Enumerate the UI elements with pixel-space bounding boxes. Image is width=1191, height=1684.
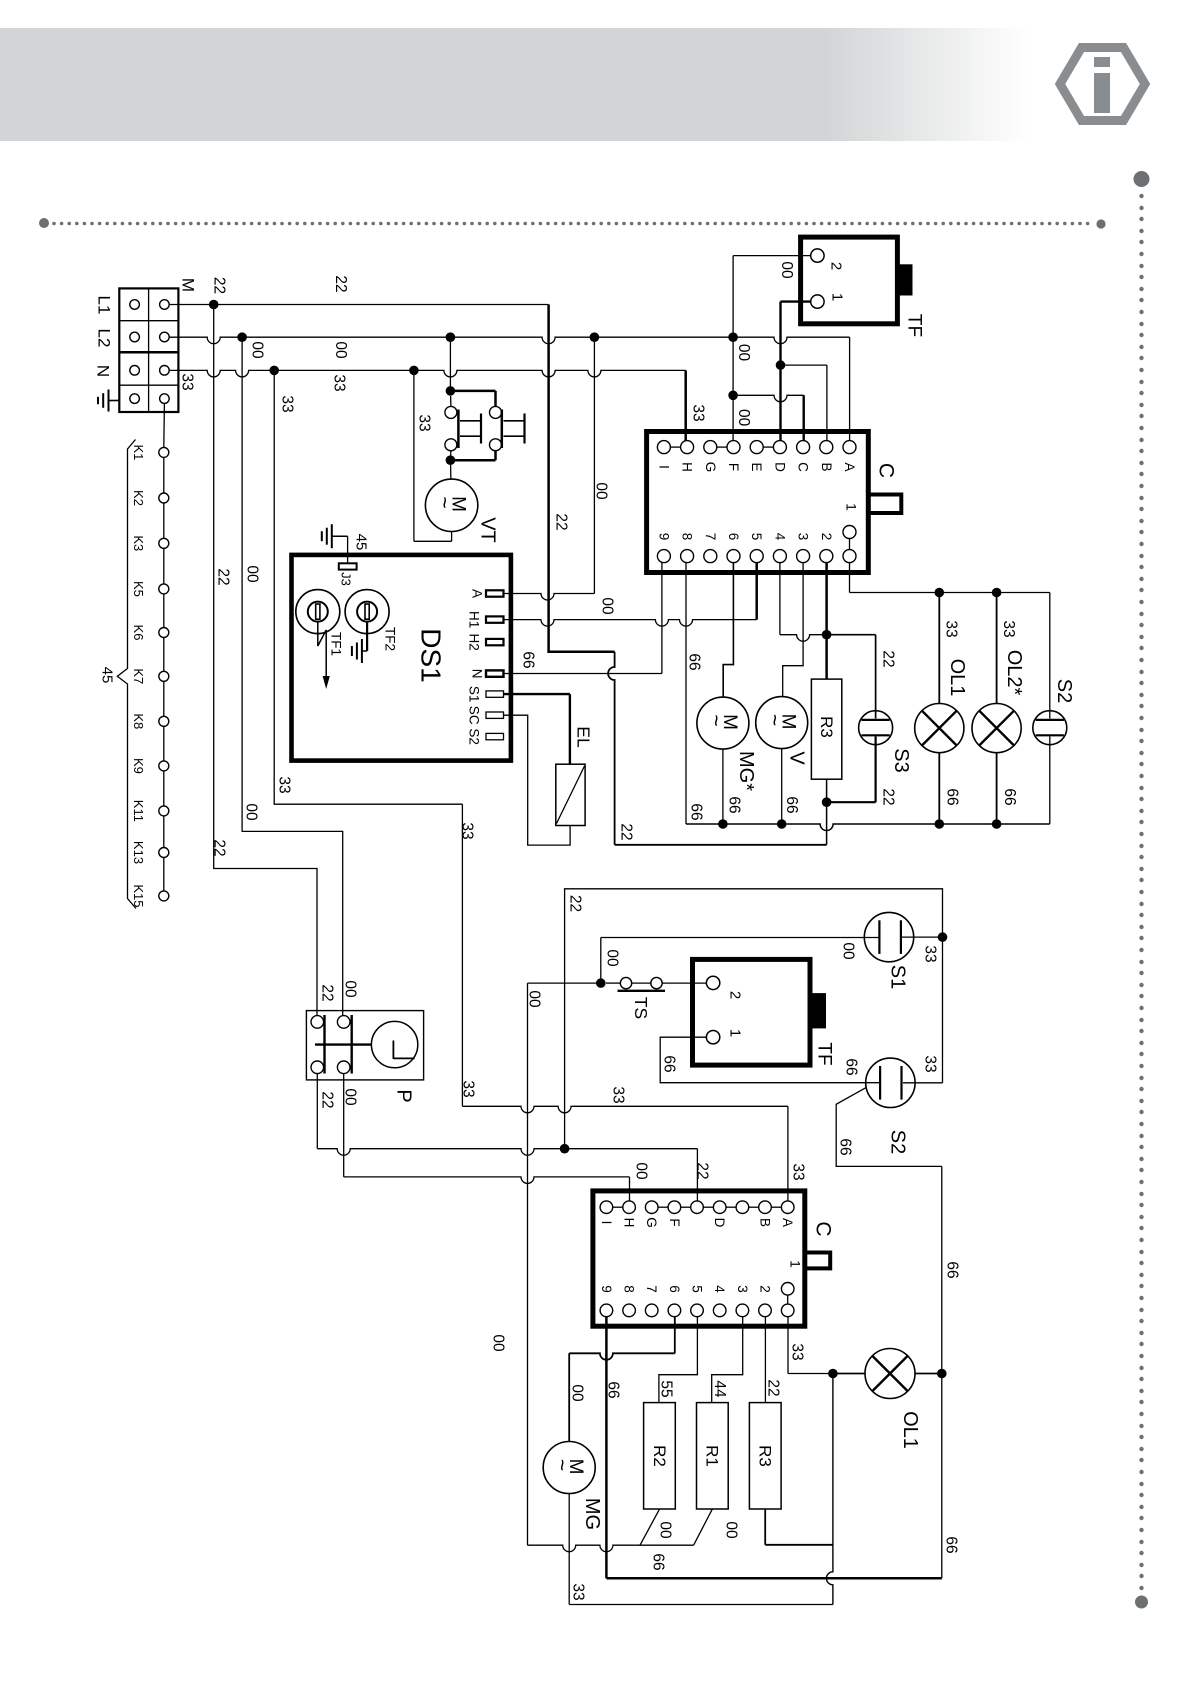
- motor V: [756, 697, 808, 749]
- label C1 pin 7: [703, 533, 718, 541]
- label L2: [95, 329, 114, 348]
- label 33 feeder mid: [279, 395, 296, 412]
- wire 33 feeder down: [461, 804, 463, 1106]
- wire 22 row L1: [169, 304, 548, 306]
- label C2 pin 9: [599, 1285, 614, 1293]
- label 33 y1106: [610, 1086, 627, 1103]
- svg-text:~: ~: [550, 1459, 573, 1471]
- label 22 feeder low: [211, 839, 228, 856]
- label K8: [131, 713, 146, 729]
- label K7: [131, 668, 146, 684]
- wire 33 bottom row: [569, 1604, 833, 1606]
- junction dot TF1/B: [776, 360, 786, 370]
- svg-text:33: 33: [922, 1055, 939, 1072]
- wire S1 to S2: [903, 937, 943, 1083]
- svg-text:00: 00: [243, 803, 260, 821]
- label K11: [131, 800, 146, 822]
- svg-text:S2: S2: [467, 728, 482, 745]
- svg-text:33: 33: [460, 1080, 477, 1097]
- label 22 S3 bottom: [880, 788, 897, 805]
- wire 00 feeder left: [242, 337, 343, 1016]
- wire to C1 pin B: [781, 365, 827, 441]
- label 22 R3b: [765, 1379, 782, 1396]
- lamp OL1 lower: [833, 1349, 942, 1399]
- label 33 pin1: [789, 1343, 806, 1360]
- label 33 a: [179, 373, 196, 390]
- wire 22 feeder left: [214, 305, 317, 1016]
- connector C1 box: [647, 432, 869, 573]
- junction dot TT top: [446, 386, 456, 396]
- svg-text:45: 45: [353, 534, 370, 551]
- info icon hexagon: [1060, 48, 1145, 121]
- label 00 S1 row a: [604, 949, 621, 967]
- svg-text:SC: SC: [467, 706, 482, 725]
- label 66 x942 a: [944, 1261, 961, 1278]
- wire C1-4 to R3 node: [780, 563, 827, 642]
- label 22 feeder mid: [215, 568, 232, 585]
- svg-text:MG: MG: [581, 1498, 603, 1530]
- label C1 pin 8: [680, 533, 695, 541]
- junction dot OL2 top: [992, 588, 1002, 598]
- svg-text:I: I: [656, 465, 671, 469]
- svg-text:K11: K11: [131, 800, 146, 822]
- svg-text:33: 33: [570, 1583, 587, 1600]
- wire DS1 S1 to EL: [504, 694, 570, 764]
- label 00 at C2 H: [633, 1162, 650, 1180]
- label R3: [817, 716, 836, 738]
- label K3: [131, 535, 146, 551]
- svg-text:TF: TF: [814, 1042, 835, 1065]
- wire 00 to C1 pin A: [849, 337, 851, 440]
- label 66 OL2: [1001, 788, 1018, 805]
- label 33 bottom: [570, 1583, 587, 1600]
- svg-text:00: 00: [244, 565, 261, 583]
- svg-text:E: E: [749, 462, 764, 471]
- label N: [94, 365, 113, 377]
- wire DS1 A to 00: [504, 337, 595, 600]
- label 55 R2: [658, 1380, 675, 1397]
- svg-text:C: C: [812, 1221, 835, 1236]
- svg-text:OL1: OL1: [899, 1411, 921, 1449]
- label C1 pin 9: [656, 533, 671, 541]
- svg-text:66: 66: [944, 788, 961, 805]
- wire C1-2 to R3: [825, 563, 828, 635]
- svg-text:8: 8: [680, 533, 695, 541]
- label TF2: [383, 627, 398, 651]
- svg-text:22: 22: [215, 568, 232, 585]
- svg-text:33: 33: [279, 395, 296, 412]
- svg-text:VT: VT: [477, 517, 499, 543]
- label 22 b: [332, 275, 349, 292]
- label 00 TF: [778, 261, 795, 279]
- svg-text:S1: S1: [887, 965, 909, 989]
- motor MG: [697, 697, 749, 749]
- label 66 TF1 wire: [661, 1055, 678, 1072]
- label C1 pin 4: [772, 533, 787, 541]
- DS1 pad S1: [486, 691, 504, 697]
- DS1 pad H1: [486, 616, 504, 622]
- svg-text:00: 00: [569, 1384, 586, 1402]
- label 66 V: [783, 796, 800, 813]
- svg-text:3: 3: [735, 1285, 750, 1293]
- wire C2-3 to R1 44: [712, 1317, 743, 1403]
- svg-text:G: G: [703, 462, 718, 473]
- svg-text:22: 22: [211, 277, 228, 294]
- junction dot V 66: [777, 819, 787, 829]
- svg-text:33: 33: [790, 1163, 807, 1180]
- label C2 pin 6: [667, 1285, 682, 1293]
- label 66 x836: [837, 1138, 854, 1155]
- switch TT: [445, 391, 525, 460]
- svg-text:N: N: [470, 669, 485, 679]
- dotted separator vertical: [1134, 171, 1150, 1609]
- label 33 OL2: [1000, 620, 1017, 637]
- svg-text:22: 22: [332, 275, 349, 292]
- connector C2 box: [593, 1191, 805, 1326]
- wire TT to VT: [450, 465, 452, 479]
- label C2 pin H: [622, 1218, 637, 1228]
- wire DS1 H1 to pin5: [504, 620, 757, 627]
- label C1 pin A: [842, 462, 857, 471]
- wire P left bottom 22: [316, 1074, 318, 1149]
- svg-text:66: 66: [688, 803, 705, 820]
- connector C1 top pins: [657, 441, 856, 454]
- svg-text:1: 1: [727, 1029, 744, 1037]
- label 33 at VT wire: [416, 414, 433, 431]
- svg-text:22: 22: [567, 895, 584, 912]
- label K9: [131, 758, 146, 774]
- svg-text:7: 7: [644, 1285, 659, 1293]
- label C1 pin 5: [749, 533, 764, 541]
- label DS1 pin S2: [467, 728, 482, 745]
- label OL2*: [1003, 650, 1025, 696]
- wire 66 down right: [941, 1166, 943, 1578]
- svg-text:TS: TS: [631, 997, 651, 1019]
- svg-text:22: 22: [319, 984, 336, 1001]
- label S1: [887, 965, 909, 989]
- wire S2 diagonal 66: [836, 1088, 942, 1167]
- label 33 pinH: [690, 404, 707, 421]
- svg-text:H: H: [680, 462, 695, 472]
- trimmer TF1: [296, 590, 340, 689]
- svg-text:S1: S1: [467, 686, 482, 703]
- junction dot L2 x242: [237, 332, 247, 342]
- label TS: [631, 997, 651, 1019]
- wire 22 main elbow: [549, 305, 615, 652]
- svg-text:00: 00: [778, 261, 795, 279]
- svg-text:S3: S3: [890, 748, 912, 772]
- connector C2 bottom pins: [600, 1283, 794, 1317]
- svg-text:L1: L1: [95, 296, 114, 315]
- svg-text:66: 66: [686, 653, 703, 670]
- wire C1-5 to H1: [755, 563, 758, 620]
- label MG lower: [581, 1498, 603, 1530]
- svg-text:TF: TF: [904, 314, 925, 337]
- label TF2 pin 1: [727, 1029, 744, 1037]
- label C1 pin F: [726, 463, 741, 471]
- label C2 pin 1: [788, 1260, 803, 1268]
- wire DS1 N to pin9: [504, 563, 662, 674]
- terminal chain K1-K15: [159, 403, 169, 901]
- label C2 pin I: [599, 1221, 614, 1225]
- wire C2-1 33: [788, 1317, 833, 1374]
- svg-text:C: C: [796, 462, 811, 472]
- connector C1 bottom pins: [657, 526, 856, 563]
- junction dot TS: [596, 978, 606, 988]
- junction dot OL1 bottom: [935, 819, 945, 829]
- label OL1 lower: [899, 1411, 921, 1449]
- label C1: [875, 463, 898, 478]
- svg-text:66: 66: [520, 651, 537, 668]
- svg-text:9: 9: [599, 1285, 614, 1293]
- label C1 pin 2: [819, 533, 834, 541]
- label 22 S1: [567, 895, 584, 912]
- svg-text:G: G: [644, 1217, 659, 1228]
- svg-text:2: 2: [819, 533, 834, 541]
- svg-text:33: 33: [610, 1086, 627, 1103]
- DS1 pad S2: [486, 733, 504, 739]
- wire V bottom: [781, 749, 783, 824]
- wire R3 lower to 33: [765, 1509, 833, 1545]
- svg-text:~: ~: [433, 496, 456, 508]
- svg-text:2: 2: [828, 262, 845, 270]
- junction dot 22 row: [560, 1144, 570, 1154]
- wire 33 feeder left: [274, 370, 462, 804]
- label 22 a: [211, 277, 228, 294]
- label L1: [95, 296, 114, 315]
- label 00 F-wire a: [735, 344, 752, 362]
- wire TF-1 66: [660, 1037, 880, 1083]
- svg-text:22: 22: [880, 650, 897, 667]
- svg-text:33: 33: [459, 822, 476, 839]
- wire C2-6 to MG 00: [569, 1317, 675, 1442]
- label K1: [131, 444, 146, 460]
- label C2 pin F: [667, 1218, 682, 1226]
- svg-text:66: 66: [661, 1055, 678, 1072]
- svg-text:66: 66: [843, 1058, 860, 1075]
- label C2 pin 2: [758, 1285, 773, 1293]
- label OL1: [946, 659, 968, 697]
- label 33 S2b: [922, 1055, 939, 1072]
- wire C2-2 to R3 22: [764, 1317, 766, 1403]
- label 00 A-wire b: [599, 597, 616, 615]
- svg-text:1: 1: [844, 503, 859, 511]
- svg-text:00: 00: [526, 990, 543, 1008]
- wire 33 row N: [169, 370, 686, 377]
- label 66 pin8 a: [686, 653, 703, 670]
- trimmer TF2: [345, 590, 389, 663]
- label 00 R2: [657, 1521, 674, 1539]
- wire C2-5 to R2 55: [659, 1317, 698, 1403]
- svg-text:5: 5: [749, 533, 764, 541]
- svg-text:F: F: [726, 463, 741, 471]
- svg-text:DS1: DS1: [416, 628, 447, 682]
- DS1 pad H2: [486, 639, 504, 645]
- jumper J3: [339, 536, 357, 569]
- label TF1: [329, 632, 344, 656]
- lamp OL1: [915, 593, 964, 825]
- wire 33 feeder to C2-A: [462, 1106, 788, 1201]
- label C1 pin E: [749, 462, 764, 471]
- svg-text:66: 66: [944, 1261, 961, 1278]
- label C1 pin H: [680, 462, 695, 472]
- svg-text:EL: EL: [574, 726, 594, 748]
- wire DS1 SC to EL: [504, 715, 571, 845]
- svg-text:22: 22: [618, 823, 635, 840]
- svg-text:R3: R3: [756, 1445, 775, 1467]
- wire 00 bottom row: [528, 1509, 713, 1551]
- module DS1 box: [292, 555, 511, 761]
- svg-text:00: 00: [657, 1521, 674, 1539]
- thermal fuse TF box: [801, 237, 913, 324]
- junction dot OL1 top: [935, 588, 945, 598]
- svg-text:33: 33: [922, 945, 939, 962]
- label C2 pin A: [780, 1218, 795, 1227]
- label S2 upper: [1053, 679, 1075, 703]
- svg-text:7: 7: [703, 533, 718, 541]
- ground symbol J3: [322, 524, 348, 548]
- svg-text:V: V: [786, 751, 808, 765]
- label 33 x462 b: [460, 1080, 477, 1097]
- thermal switch TS: [606, 977, 706, 990]
- junction dot L2 x733: [728, 332, 738, 342]
- svg-text:S2: S2: [1053, 679, 1075, 703]
- label TF pin 1: [829, 293, 846, 301]
- svg-text:1: 1: [829, 293, 846, 301]
- label DS1: [416, 628, 447, 682]
- label V: [786, 751, 808, 765]
- svg-text:TF1: TF1: [329, 632, 344, 656]
- label 00 a: [249, 341, 266, 359]
- svg-text:33: 33: [331, 374, 348, 391]
- wire TF2 to C1 F: [733, 256, 811, 441]
- label 22 main: [553, 513, 570, 530]
- svg-text:K13: K13: [131, 841, 146, 864]
- svg-text:00: 00: [604, 949, 621, 967]
- svg-text:K8: K8: [131, 713, 146, 729]
- label 00 b: [332, 341, 349, 359]
- junction dot MG 66: [718, 819, 728, 829]
- thermal fuse TF lower box: [693, 959, 827, 1065]
- svg-text:33: 33: [943, 620, 960, 637]
- svg-text:22: 22: [553, 513, 570, 530]
- label DS1 pin A: [470, 589, 485, 598]
- label 22 S3 top: [880, 650, 897, 667]
- junction dot N x414: [409, 366, 419, 376]
- junction dot N x274: [269, 366, 279, 376]
- svg-text:22: 22: [880, 788, 897, 805]
- svg-text:00: 00: [599, 597, 616, 615]
- label 00 P bot: [342, 1088, 359, 1106]
- label 45 J3: [353, 534, 370, 551]
- svg-text:5: 5: [690, 1285, 705, 1293]
- svg-text:00: 00: [593, 482, 610, 500]
- svg-text:00: 00: [735, 344, 752, 362]
- svg-text:K1: K1: [131, 444, 146, 460]
- label DS1 pin N: [470, 669, 485, 679]
- label R3 lower: [756, 1445, 775, 1467]
- label C2 pin G: [644, 1217, 659, 1228]
- DS1 pad A: [486, 590, 504, 596]
- svg-text:33: 33: [1000, 620, 1017, 637]
- junction dot OL2 bottom: [992, 819, 1002, 829]
- label DS1 pin S1: [467, 686, 482, 703]
- label TF pin 2: [828, 262, 845, 270]
- junction dot S1 right: [938, 932, 948, 942]
- label 22 x614: [618, 823, 635, 840]
- junction dot L1/22: [209, 300, 219, 310]
- dotted separator horizontal: [39, 218, 1106, 229]
- label 00 feeder low: [243, 803, 260, 821]
- svg-text:22: 22: [694, 1162, 711, 1179]
- resistor R2: [644, 1403, 676, 1509]
- label C2 pin D: [712, 1218, 727, 1228]
- label C2 pin 5: [690, 1285, 705, 1293]
- wire 00 middle row: [344, 1177, 630, 1201]
- label 00 F-wire b: [735, 409, 752, 427]
- label MG*: [735, 751, 757, 791]
- switch S2 upper: [1033, 593, 1067, 825]
- wire C1-1 to lamp rail: [849, 563, 851, 593]
- wire lamp rail 33: [850, 592, 1050, 594]
- svg-text:A: A: [470, 589, 485, 598]
- label J3: [339, 572, 354, 586]
- svg-text:00: 00: [840, 942, 857, 960]
- label 00 bottom left: [490, 1334, 507, 1352]
- label C1 pin D: [772, 462, 787, 472]
- svg-text:2: 2: [758, 1285, 773, 1293]
- label C2 pin 3: [735, 1285, 750, 1293]
- wire TF1 to C1 D: [781, 302, 811, 441]
- label S3: [890, 748, 912, 772]
- label P: [393, 1089, 415, 1102]
- label DS1 pin H2: [467, 633, 482, 650]
- resistor R3 lower: [749, 1403, 781, 1509]
- svg-text:D: D: [712, 1218, 727, 1228]
- label 66 OL1: [944, 788, 961, 805]
- wire 22 up to S1: [565, 889, 943, 1149]
- junction dot R3 top: [822, 630, 832, 640]
- svg-text:H2: H2: [467, 633, 482, 650]
- label 22 at C2 E: [694, 1162, 711, 1179]
- svg-text:00: 00: [249, 341, 266, 359]
- svg-text:A: A: [842, 462, 857, 471]
- wire 00 to TS: [528, 982, 601, 984]
- label VT: [477, 517, 499, 543]
- svg-text:M: M: [179, 278, 198, 292]
- label C2 pin 8: [622, 1285, 637, 1293]
- label C2: [812, 1221, 835, 1236]
- wire VT bottom 33: [414, 370, 452, 541]
- svg-text:~: ~: [763, 714, 786, 726]
- wire L2 dot to TT: [449, 337, 451, 391]
- terminal block M (mains): [119, 288, 178, 412]
- connector C2 top pins: [600, 1201, 794, 1214]
- wire C1-8 66: [685, 563, 687, 824]
- label M: [179, 278, 198, 292]
- svg-text:33: 33: [690, 404, 707, 421]
- resistor R3: [811, 635, 841, 779]
- svg-text:K7: K7: [131, 668, 146, 684]
- svg-text:44: 44: [711, 1380, 728, 1398]
- svg-text:K9: K9: [131, 758, 146, 774]
- svg-text:OL2*: OL2*: [1003, 650, 1025, 696]
- label 33 b: [331, 374, 348, 391]
- svg-text:R1: R1: [703, 1445, 722, 1467]
- svg-text:22: 22: [765, 1379, 782, 1396]
- junction dot 33 node: [828, 1369, 838, 1379]
- label C1 pin 1: [844, 503, 859, 511]
